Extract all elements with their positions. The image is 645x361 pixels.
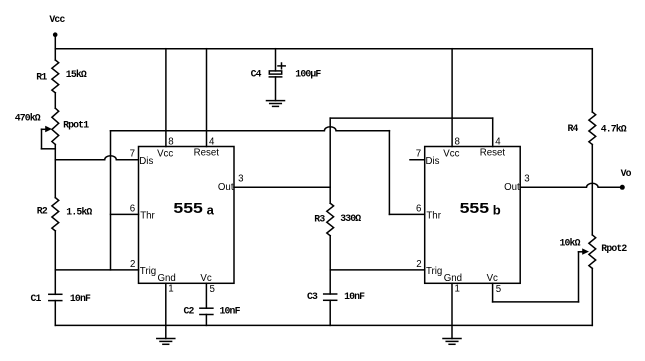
potentiometer Rpot1 <box>42 108 59 149</box>
node Vcc <box>49 14 65 37</box>
pin labels 555 b <box>426 148 521 284</box>
svg-text:1: 1 <box>168 284 173 295</box>
svg-text:C1: C1 <box>31 293 42 304</box>
wire reset b link <box>330 118 493 146</box>
wire pin1 b to ground <box>451 283 453 338</box>
wire Trig b <box>330 269 425 271</box>
label C1 10nF <box>31 293 91 304</box>
svg-text:2: 2 <box>416 259 421 270</box>
wire pin5 b to Rpot2 wiper <box>493 252 579 302</box>
label Rpot1 470k <box>15 112 90 130</box>
svg-text:4: 4 <box>495 136 501 147</box>
ground a <box>157 339 175 345</box>
wire pin4 a to Vcc rail <box>206 49 208 147</box>
svg-text:a: a <box>207 203 215 218</box>
svg-text:C4: C4 <box>251 68 262 79</box>
svg-text:Thr: Thr <box>140 211 155 222</box>
wire Dis a (with hop) <box>55 156 138 160</box>
label R3 330 <box>314 213 361 225</box>
wire Dis b stub <box>410 159 425 161</box>
svg-text:7: 7 <box>416 148 421 159</box>
svg-text:6: 6 <box>130 203 135 214</box>
resistor R3 <box>327 203 334 236</box>
label C4 100uF <box>251 68 322 79</box>
wire <box>591 145 593 235</box>
svg-text:Rpot1: Rpot1 <box>63 119 89 130</box>
wire Out b (with hop) <box>520 183 620 187</box>
wire <box>54 37 56 61</box>
wire out net vertical <box>329 118 331 203</box>
svg-text:C2: C2 <box>184 305 195 316</box>
label C3 10nF <box>307 291 365 302</box>
svg-text:1.5kΩ: 1.5kΩ <box>66 207 92 218</box>
svg-text:6: 6 <box>416 203 421 214</box>
svg-text:5: 5 <box>210 284 215 295</box>
wire bottom rail <box>55 324 592 326</box>
wire <box>329 300 331 325</box>
capacitor C1 <box>49 294 62 300</box>
svg-text:4.7kΩ: 4.7kΩ <box>601 124 627 135</box>
svg-text:Dis: Dis <box>426 156 440 167</box>
svg-text:Vc: Vc <box>200 273 211 284</box>
capacitor C2 <box>200 308 213 314</box>
svg-text:8: 8 <box>168 136 173 147</box>
svg-text:Dis: Dis <box>139 156 153 167</box>
svg-text:R3: R3 <box>314 214 325 225</box>
svg-text:1: 1 <box>455 284 460 295</box>
IC U1 555 a <box>139 147 235 284</box>
IC U2 555 b <box>425 147 521 284</box>
ground b <box>443 339 461 345</box>
svg-text:C3: C3 <box>307 291 318 302</box>
svg-text:Reset: Reset <box>194 148 220 159</box>
node Vo <box>620 168 632 190</box>
wire <box>54 231 56 294</box>
svg-text:Trig: Trig <box>140 266 156 277</box>
svg-text:2: 2 <box>130 259 135 270</box>
label 555 a <box>173 201 214 218</box>
svg-text:555: 555 <box>173 201 202 217</box>
svg-text:470kΩ: 470kΩ <box>15 112 41 123</box>
svg-text:Vcc: Vcc <box>443 148 459 159</box>
pin numbers 555 a <box>130 136 244 295</box>
svg-text:Reset: Reset <box>480 148 506 159</box>
wire <box>205 315 207 326</box>
svg-text:10nF: 10nF <box>344 291 365 302</box>
wire <box>591 49 593 112</box>
svg-text:330Ω: 330Ω <box>340 213 361 224</box>
svg-text:10nF: 10nF <box>70 293 91 304</box>
wire cross link (with hop over out net) <box>111 127 390 131</box>
wire to Thr b <box>389 131 424 215</box>
svg-text:100µF: 100µF <box>295 69 321 80</box>
svg-text:10kΩ: 10kΩ <box>560 238 581 249</box>
resistor R1 <box>52 60 59 93</box>
label R4 4.7k <box>568 123 627 135</box>
svg-text:b: b <box>493 203 501 218</box>
wire pin8 b to Vcc rail <box>451 49 453 147</box>
svg-text:Out: Out <box>218 182 234 193</box>
wire pin5 a to C2 <box>205 283 207 308</box>
capacitor C3 <box>324 294 337 300</box>
svg-text:4: 4 <box>209 136 215 147</box>
wire <box>54 301 56 326</box>
svg-text:15kΩ: 15kΩ <box>66 69 87 80</box>
label Rpot2 10k <box>560 238 628 254</box>
svg-text:3: 3 <box>524 174 529 185</box>
svg-text:555: 555 <box>460 201 489 217</box>
wire <box>54 93 56 108</box>
label 555 b <box>460 201 501 218</box>
wire top rail <box>55 48 592 50</box>
label R2 1.5k <box>37 205 93 217</box>
potentiometer Rpot2 <box>579 235 596 269</box>
svg-text:Gnd: Gnd <box>158 273 176 284</box>
resistor R2 <box>52 198 59 231</box>
wire pin1 a to ground <box>165 283 167 338</box>
label C2 10nF <box>184 305 241 316</box>
resistor R4 <box>589 112 596 145</box>
svg-text:Vcc: Vcc <box>49 14 65 25</box>
svg-text:7: 7 <box>130 148 135 159</box>
svg-text:5: 5 <box>496 284 501 295</box>
svg-text:Gnd: Gnd <box>444 273 462 284</box>
svg-text:R4: R4 <box>568 123 579 134</box>
svg-text:Vc: Vc <box>487 273 498 284</box>
wire <box>329 236 331 294</box>
svg-text:3: 3 <box>238 174 243 185</box>
svg-text:Rpot2: Rpot2 <box>601 243 627 254</box>
wire pin8 a to Vcc rail <box>165 49 167 147</box>
svg-text:R2: R2 <box>37 205 48 216</box>
wire Out a <box>234 186 330 188</box>
svg-text:Thr: Thr <box>426 211 441 222</box>
svg-text:Vcc: Vcc <box>157 148 173 159</box>
ground below C4 <box>267 101 285 107</box>
svg-text:8: 8 <box>455 136 460 147</box>
wire <box>591 268 593 325</box>
wire <box>54 145 56 198</box>
capacitor C4 electrolytic <box>269 49 285 101</box>
pin numbers 555 b <box>416 136 530 295</box>
pin labels 555 a <box>139 148 234 284</box>
svg-text:Trig: Trig <box>426 266 442 277</box>
svg-text:Out: Out <box>504 182 520 193</box>
svg-text:10nF: 10nF <box>220 305 241 316</box>
svg-text:Vo: Vo <box>621 168 632 179</box>
wire Thr a <box>111 213 139 215</box>
svg-text:R1: R1 <box>36 72 47 83</box>
wire Thr/Trig feedback vertical <box>110 131 112 270</box>
label R1 15k <box>36 69 87 83</box>
wire Trig a <box>55 269 138 271</box>
